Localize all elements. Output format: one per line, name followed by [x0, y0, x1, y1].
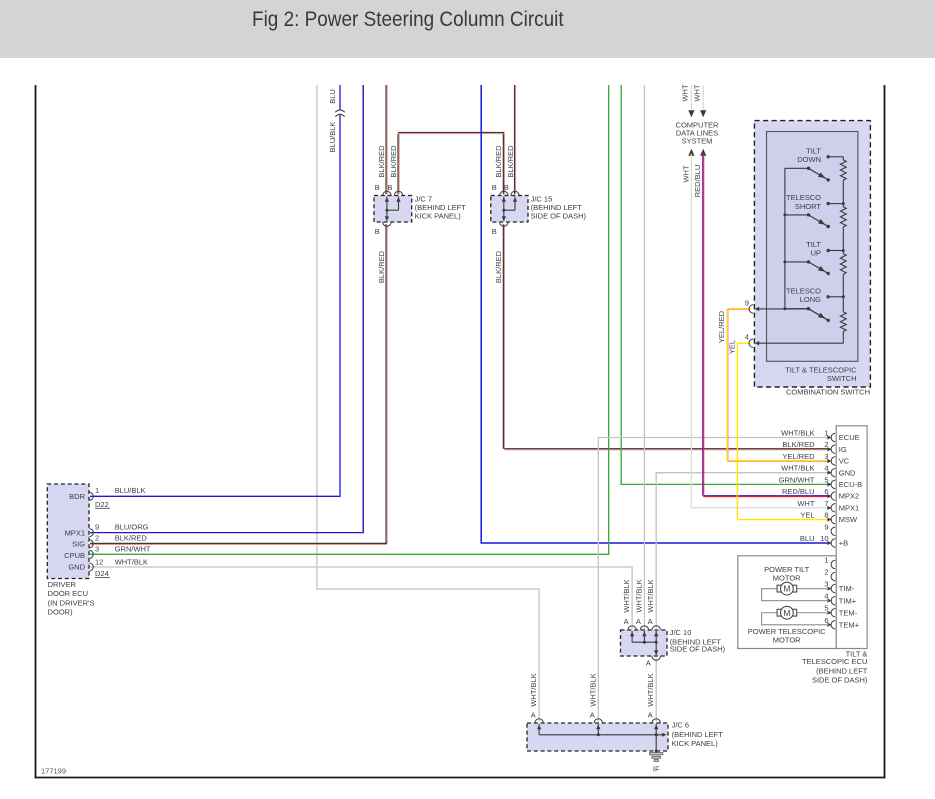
svg-text:YEL/RED: YEL/RED	[717, 310, 726, 343]
svg-text:GND: GND	[68, 563, 85, 572]
svg-text:6: 6	[824, 487, 828, 496]
svg-text:WHT/BLK: WHT/BLK	[646, 579, 655, 612]
driver door ECU pin GND arc	[89, 563, 93, 571]
svg-text:1: 1	[95, 486, 99, 495]
driver door ECU box	[47, 484, 89, 579]
svg-text:BLK/RED: BLK/RED	[494, 145, 503, 178]
combination switch outer box	[754, 121, 870, 387]
ECU connector pin 7 MPX1	[827, 506, 831, 510]
svg-text:2: 2	[824, 568, 828, 577]
svg-text:LONG: LONG	[800, 295, 821, 304]
svg-text:WHT/BLK: WHT/BLK	[781, 429, 814, 438]
wire BLU/ORG (top frame to DRIVER DOOR ECU pin 9)	[361, 85, 363, 532]
ECU connector pin 9	[831, 527, 835, 535]
svg-text:BLK/RED: BLK/RED	[506, 145, 515, 178]
svg-text:ECU-B: ECU-B	[839, 480, 862, 489]
junction connector J/C 15 box	[491, 196, 528, 223]
J/C 6 pin arcs	[535, 719, 543, 723]
svg-text:BLU: BLU	[800, 534, 815, 543]
svg-text:TEM+: TEM+	[839, 620, 860, 629]
svg-text:4: 4	[824, 464, 828, 473]
svg-text:POWER TILT: POWER TILT	[764, 565, 810, 574]
svg-text:M: M	[783, 608, 790, 618]
svg-text:A: A	[646, 659, 651, 668]
svg-text:BLU/ORG: BLU/ORG	[115, 522, 149, 531]
svg-text:B: B	[375, 183, 380, 192]
svg-text:4: 4	[745, 333, 749, 342]
svg-text:10: 10	[820, 534, 828, 543]
wire YEL (COMBINATION SWITCH pin 4 to ECU connector pin 8 MSW)	[737, 342, 750, 344]
svg-text:DOOR): DOOR)	[48, 608, 74, 617]
ECU connector pin 10 +B	[827, 541, 831, 545]
svg-text:7: 7	[824, 499, 828, 508]
ECU connector pin 5 ECU-B	[827, 482, 831, 486]
svg-text:SIG: SIG	[72, 540, 85, 549]
svg-text:DOOR ECU: DOOR ECU	[48, 589, 88, 598]
svg-text:WHT/BLK: WHT/BLK	[622, 579, 631, 612]
svg-text:SIDE OF DASH): SIDE OF DASH)	[670, 644, 726, 653]
svg-text:WHT/BLK: WHT/BLK	[781, 464, 814, 473]
svg-text:J/C 6: J/C 6	[672, 721, 690, 730]
svg-text:B: B	[375, 227, 380, 236]
svg-text:B: B	[492, 227, 497, 236]
wire BLK/RED (top frame to J/C 7 pin B1)	[385, 85, 387, 194]
svg-text:WHT: WHT	[681, 165, 690, 182]
svg-text:WHT/BLK: WHT/BLK	[529, 673, 538, 706]
svg-text:1: 1	[824, 429, 828, 438]
svg-text:D22: D22	[95, 500, 109, 509]
svg-text:B: B	[492, 183, 497, 192]
switch left bus wire	[784, 168, 786, 309]
svg-text:YEL: YEL	[728, 340, 737, 354]
svg-text:A: A	[531, 710, 536, 719]
svg-text:TIM-: TIM-	[839, 584, 855, 593]
motor box pin 3 TIM-	[827, 587, 831, 591]
wire WHT/BLK (ECU connector pin 1 ECUE to J/C 6 pin A2)	[598, 438, 828, 722]
J/C 10 pin arcs	[628, 626, 636, 630]
svg-text:CPUB: CPUB	[64, 551, 85, 560]
svg-text:IF: IF	[653, 764, 660, 773]
frame bottom border	[35, 777, 886, 779]
motor box pin 1 arc	[831, 560, 835, 568]
power telescopic motor M2	[796, 612, 829, 614]
J/C 10 internal wiring	[631, 631, 633, 642]
svg-text:BLK/RED: BLK/RED	[377, 250, 386, 283]
svg-text:M: M	[783, 584, 790, 594]
power tilt motor M1	[796, 588, 829, 590]
driver door ECU pin BDR arc	[89, 492, 93, 500]
svg-text:5: 5	[824, 475, 828, 484]
svg-text:COMBINATION SWITCH: COMBINATION SWITCH	[786, 388, 870, 397]
svg-text:6: 6	[824, 616, 828, 625]
wire GRN/WHT (top frame to DRIVER DOOR ECU pin 3)	[90, 85, 609, 554]
ECU connector pin 6 MPX2	[827, 494, 831, 498]
ground IF	[650, 753, 663, 755]
svg-text:UP: UP	[811, 249, 821, 258]
ECU connector pin 8 MSW	[827, 518, 831, 522]
svg-text:WHT: WHT	[681, 84, 690, 101]
J/C 7 internal wiring	[386, 197, 388, 221]
junction connector J/C 6 box	[527, 723, 668, 751]
svg-text:WHT/BLK: WHT/BLK	[115, 557, 148, 566]
svg-text:5: 5	[824, 604, 828, 613]
svg-text:SWITCH: SWITCH	[827, 374, 857, 383]
svg-text:(IN DRIVER'S: (IN DRIVER'S	[48, 598, 95, 607]
svg-text:TEM-: TEM-	[839, 608, 858, 617]
svg-text:D24: D24	[95, 569, 109, 578]
svg-text:DOWN: DOWN	[797, 155, 821, 164]
svg-text:Fig 2: Power Steering Column C: Fig 2: Power Steering Column Circuit	[252, 8, 564, 31]
J/C 7 pin arcs	[383, 191, 391, 195]
resistor R3	[840, 254, 846, 274]
svg-text:KICK PANEL): KICK PANEL)	[672, 739, 719, 748]
svg-text:A: A	[648, 617, 653, 626]
svg-text:VC: VC	[839, 457, 850, 466]
svg-text:SYSTEM: SYSTEM	[682, 136, 713, 145]
wire RED/BLU (COMPUTER DATA LINES SYSTEM to ECU connector pin 6 MPX2)	[700, 149, 706, 156]
wire WHT stub to COMPUTER DATA LINES SYSTEM (right)	[702, 85, 704, 111]
J/C 15 pin arcs	[500, 191, 508, 195]
svg-text:12: 12	[95, 557, 103, 566]
wire WHT (COMPUTER DATA LINES SYSTEM to ECU connector pin 7 MPX1)	[688, 149, 694, 156]
svg-text:TELESCOPIC ECU: TELESCOPIC ECU	[802, 657, 867, 666]
resistor R1	[840, 160, 846, 180]
svg-text:SHORT: SHORT	[795, 202, 822, 211]
header bar	[0, 0, 935, 58]
svg-text:GND: GND	[839, 468, 856, 477]
inline connector symbol on BLU wire	[338, 111, 341, 114]
svg-text:9: 9	[95, 522, 99, 531]
svg-text:BLK/RED: BLK/RED	[377, 145, 386, 178]
wire BLU (top frame to ECU connector pin 10 +B)	[481, 85, 828, 543]
wire GRN/WHT (top frame to ECU connector pin 5 ECU-B)	[621, 85, 828, 484]
switch pin 4 arc	[749, 339, 753, 347]
ECU connector pin 2 IG	[827, 447, 831, 451]
ECU connector pin 1 ECUE	[827, 436, 831, 440]
frame right border	[884, 85, 886, 778]
wire BLK/RED (J/C 7 pin B2 up, across, down to J/C 15 pin B1)	[397, 134, 399, 195]
svg-text:SIDE OF DASH): SIDE OF DASH)	[812, 675, 868, 684]
resistor R2	[840, 207, 846, 227]
junction connector J/C 10 box	[621, 630, 668, 656]
ECU connector pin 3 VC	[827, 459, 831, 463]
svg-text:9: 9	[745, 298, 749, 307]
resistor R4	[840, 312, 846, 332]
svg-text:WHT/BLK: WHT/BLK	[634, 579, 643, 612]
svg-text:ECUE: ECUE	[839, 433, 860, 442]
svg-text:WHT: WHT	[797, 499, 814, 508]
svg-text:(BEHIND LEFT: (BEHIND LEFT	[816, 667, 868, 676]
svg-text:BLU/BLK: BLU/BLK	[328, 122, 337, 153]
driver door ECU pin CPUB arc	[89, 550, 93, 558]
svg-text:RED/BLU: RED/BLU	[782, 487, 815, 496]
wire WHT/BLK (ECU connector pin 4 GND to J/C 10 pin A3)	[656, 473, 828, 629]
motor box pin 6 TEM+	[827, 623, 831, 627]
svg-text:DRIVER: DRIVER	[48, 580, 77, 589]
svg-text:BDR: BDR	[69, 492, 85, 501]
switch right bus / resistor chain	[842, 157, 844, 160]
svg-text:B: B	[504, 183, 509, 192]
svg-text:IG: IG	[839, 445, 847, 454]
svg-text:MSW: MSW	[839, 515, 858, 524]
driver door ECU pin SIG arc	[89, 540, 93, 548]
switch pin 9 internal wire	[757, 308, 809, 310]
J/C 6 internal wiring	[538, 724, 540, 735]
svg-text:WHT/BLK: WHT/BLK	[588, 673, 597, 706]
svg-text:4: 4	[824, 592, 828, 601]
wire BLK/RED (J/C 7 bottom pin B to DRIVER DOOR ECU pin 2)	[385, 224, 387, 543]
wire WHT/BLK (DRIVER DOOR ECU pin 12 to J/C 10 pin A1)	[90, 567, 632, 629]
svg-text:MPX1: MPX1	[839, 503, 859, 512]
svg-text:J/C 10: J/C 10	[670, 628, 692, 637]
ECU connector pin 4 GND	[827, 471, 831, 475]
svg-text:A: A	[648, 710, 653, 719]
wire WHT stub to COMPUTER DATA LINES SYSTEM (left)	[690, 85, 692, 111]
frame left border	[35, 85, 37, 778]
svg-text:B: B	[387, 183, 392, 192]
wire WHT/BLK (top frame to J/C 10 pin A2)	[643, 85, 645, 629]
J/C 15 internal wiring	[503, 197, 505, 221]
switch pin 4 internal wire	[757, 342, 844, 344]
motor box pin 5 TEM-	[827, 611, 831, 615]
svg-text:+B: +B	[839, 539, 848, 548]
svg-text:RED/BLU: RED/BLU	[693, 165, 702, 198]
wire BLU BLU/BLK (top frame to DRIVER DOOR ECU pin 1)	[90, 85, 340, 496]
driver door ECU pin MPX1 arc	[89, 529, 93, 537]
svg-text:3: 3	[824, 580, 828, 589]
svg-text:3: 3	[95, 545, 99, 554]
svg-text:A: A	[590, 710, 595, 719]
svg-text:(BEHIND LEFT: (BEHIND LEFT	[672, 730, 724, 739]
svg-text:BLK/RED: BLK/RED	[782, 440, 815, 449]
wire YEL/RED (COMBINATION SWITCH pin 9 to ECU connector pin 3 VC)	[727, 308, 751, 310]
svg-text:KICK PANEL): KICK PANEL)	[415, 211, 462, 220]
tilt and telescopic ECU connector box	[836, 426, 867, 649]
switch pin 9 arc	[749, 305, 753, 313]
svg-text:MPX2: MPX2	[839, 492, 859, 501]
svg-text:BLU/BLK: BLU/BLK	[115, 486, 146, 495]
junction connector J/C 7 box	[374, 196, 412, 223]
motor box pin 4 TIM+	[827, 599, 831, 603]
wire BLK/RED (J/C 15 bottom pin B to ECU connector pin 2)	[502, 224, 504, 449]
motor box pin 2 arc	[831, 572, 835, 580]
svg-text:BLK/RED: BLK/RED	[115, 534, 148, 543]
wire BLK/RED (top frame to J/C 15 pin B2)	[514, 85, 516, 194]
svg-text:9: 9	[824, 522, 828, 531]
svg-text:A: A	[636, 617, 641, 626]
svg-text:GRN/WHT: GRN/WHT	[779, 475, 815, 484]
svg-text:WHT: WHT	[693, 84, 702, 101]
svg-text:YEL/RED: YEL/RED	[782, 452, 815, 461]
svg-text:BLK/RED: BLK/RED	[389, 145, 398, 178]
svg-text:2: 2	[824, 440, 828, 449]
svg-text:BLK/RED: BLK/RED	[494, 250, 503, 283]
svg-text:8: 8	[824, 511, 828, 520]
svg-text:GRN/WHT: GRN/WHT	[115, 545, 151, 554]
svg-text:WHT/BLK: WHT/BLK	[646, 673, 655, 706]
svg-text:BLU: BLU	[328, 89, 337, 104]
power tilt / telescopic motor box	[738, 556, 836, 649]
svg-text:MOTOR: MOTOR	[773, 574, 801, 583]
svg-text:A: A	[624, 617, 629, 626]
wire WHT/BLK (J/C 10 bottom pin A to J/C 6 pin A3)	[655, 658, 657, 722]
svg-text:MPX1: MPX1	[65, 528, 85, 537]
svg-text:YEL: YEL	[800, 511, 814, 520]
svg-text:1: 1	[824, 556, 828, 565]
svg-text:177199: 177199	[41, 767, 66, 776]
svg-text:SIDE OF DASH): SIDE OF DASH)	[531, 211, 587, 220]
svg-text:MOTOR: MOTOR	[773, 635, 801, 644]
svg-text:TIM+: TIM+	[839, 596, 857, 605]
svg-text:2: 2	[95, 534, 99, 543]
wire WHT/BLK net (top frame to J/C 6 pin A1)	[317, 85, 539, 722]
tilt and telescopic switch inner box	[767, 132, 858, 362]
svg-text:3: 3	[824, 452, 828, 461]
